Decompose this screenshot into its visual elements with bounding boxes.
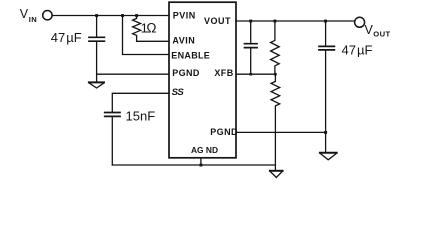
- capacitor C1 47uF: [89, 37, 104, 41]
- node PGND-cap junction: [324, 131, 327, 134]
- node AGND junction: [200, 164, 203, 167]
- ground divider: [270, 170, 283, 172]
- node XFB-divider junction: [274, 73, 277, 76]
- svg-text:AG ND: AG ND: [191, 145, 218, 155]
- svg-text:XFB: XFB: [214, 68, 233, 78]
- svg-text:47µF: 47µF: [51, 30, 82, 45]
- wire PGND left: [97, 73, 169, 75]
- svg-text:47µF: 47µF: [342, 43, 373, 58]
- resistor R2 divider top: [271, 21, 280, 74]
- wire PGND right: [236, 131, 326, 133]
- wire cap C2 bottom lead: [111, 117, 113, 165]
- IC U1 box: [169, 2, 236, 158]
- svg-text:SS: SS: [172, 87, 185, 98]
- wire cap C4 top lead: [325, 21, 327, 46]
- svg-text:OUT: OUT: [373, 30, 390, 39]
- ground output: [320, 152, 337, 154]
- node enable junction: [121, 14, 124, 17]
- wire cap C4 bottom lead: [325, 51, 327, 153]
- capacitor C4 47uF output: [319, 46, 334, 50]
- svg-text:VOUT: VOUT: [204, 16, 231, 26]
- svg-text:PGND: PGND: [172, 68, 200, 78]
- wire bottom ground rail: [112, 164, 275, 166]
- wire cap C1 bottom lead: [96, 42, 98, 82]
- wire SS lead: [112, 93, 169, 112]
- ground input: [89, 81, 104, 83]
- svg-text:PVIN: PVIN: [173, 11, 196, 21]
- resistor R1 1ohm: [133, 16, 141, 42]
- wire cap C1 top lead: [96, 16, 98, 37]
- svg-text:V: V: [20, 7, 29, 21]
- svg-text:AVIN: AVIN: [172, 35, 195, 45]
- node divider junction: [274, 20, 277, 23]
- svg-text:15nF: 15nF: [126, 109, 156, 124]
- output terminal VOUT: [355, 17, 365, 27]
- wire XFB: [236, 73, 275, 75]
- svg-text:ENABLE: ENABLE: [171, 50, 210, 60]
- wire AGND lead: [200, 158, 202, 165]
- node C4 junction: [324, 20, 327, 23]
- node C3 junction: [249, 20, 252, 23]
- node R1 junction: [135, 14, 138, 17]
- wire AVIN: [137, 40, 169, 42]
- svg-text:Ω: Ω: [146, 20, 156, 35]
- input terminal VIN: [43, 11, 52, 20]
- capacitor C3: [245, 44, 258, 48]
- wire output rail VOUT: [236, 20, 354, 22]
- node input-cap junction: [95, 14, 98, 17]
- wire enable branch: [123, 16, 170, 55]
- wire cap C3 top lead: [250, 21, 252, 43]
- capacitor C2 15nF: [105, 113, 120, 117]
- resistor R3 divider bottom: [271, 74, 280, 170]
- node XFB-C3 junction: [250, 73, 253, 76]
- svg-text:PGND: PGND: [210, 127, 238, 137]
- wire cap C3 bottom lead: [250, 48, 252, 74]
- wire input rail: [52, 15, 169, 17]
- svg-text:IN: IN: [29, 15, 37, 24]
- svg-text:V: V: [365, 23, 374, 37]
